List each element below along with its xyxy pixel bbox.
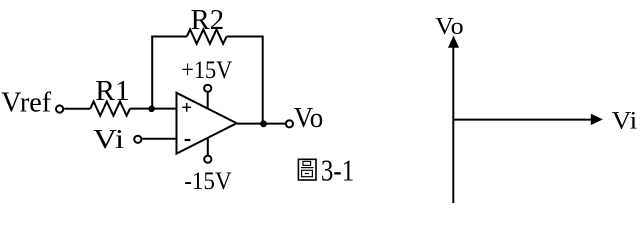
svg-text:3-1: 3-1 bbox=[321, 153, 354, 188]
wire R2 to top right corner bbox=[227, 36, 263, 38]
wire feedback left vertical bbox=[151, 37, 153, 109]
graph vertical axis arrowhead bbox=[448, 36, 459, 48]
svg-text:+15V: +15V bbox=[181, 57, 232, 84]
caption figure character 圖 bbox=[298, 159, 316, 180]
negative supply terminal bbox=[204, 156, 211, 163]
junction output node bbox=[260, 120, 267, 127]
svg-text:Vo: Vo bbox=[294, 103, 324, 134]
node Vref terminal bbox=[56, 105, 63, 112]
op-amp noninverting input marking + bbox=[182, 103, 191, 112]
svg-text:-15V: -15V bbox=[184, 168, 232, 195]
wire feedback right vertical to output node bbox=[262, 36, 264, 124]
graph vertical axis line bbox=[452, 45, 454, 203]
svg-text:R2: R2 bbox=[191, 5, 225, 36]
junction feedback node at noninverting input bbox=[148, 106, 155, 113]
wire Vi terminal to op-amp inverting input bbox=[142, 138, 176, 140]
svg-text:Vi: Vi bbox=[612, 107, 638, 134]
op-amp U1 bbox=[177, 93, 237, 154]
node Vo terminal bbox=[286, 120, 293, 127]
svg-text:R1: R1 bbox=[95, 76, 130, 107]
svg-text:Vi: Vi bbox=[93, 124, 124, 154]
resistor R1 bbox=[90, 102, 130, 116]
graph horizontal axis arrowhead bbox=[591, 114, 603, 125]
svg-text:Vref: Vref bbox=[1, 88, 52, 119]
op-amp inverting input marking - bbox=[185, 139, 191, 141]
wire R1 to op-amp noninverting input bbox=[130, 108, 177, 110]
wire op-amp output to Vo terminal bbox=[237, 123, 286, 125]
positive supply stub wire bbox=[207, 92, 209, 108]
graph horizontal axis line bbox=[453, 119, 592, 121]
wire feedback top left horizontal to R2 bbox=[151, 36, 187, 38]
negative supply stub wire bbox=[207, 138, 209, 155]
svg-text:Vo: Vo bbox=[435, 13, 463, 40]
wire Vref terminal to R1 bbox=[64, 108, 90, 110]
node Vi terminal bbox=[134, 136, 141, 143]
resistor R2 bbox=[187, 29, 227, 43]
positive supply terminal bbox=[204, 85, 211, 92]
